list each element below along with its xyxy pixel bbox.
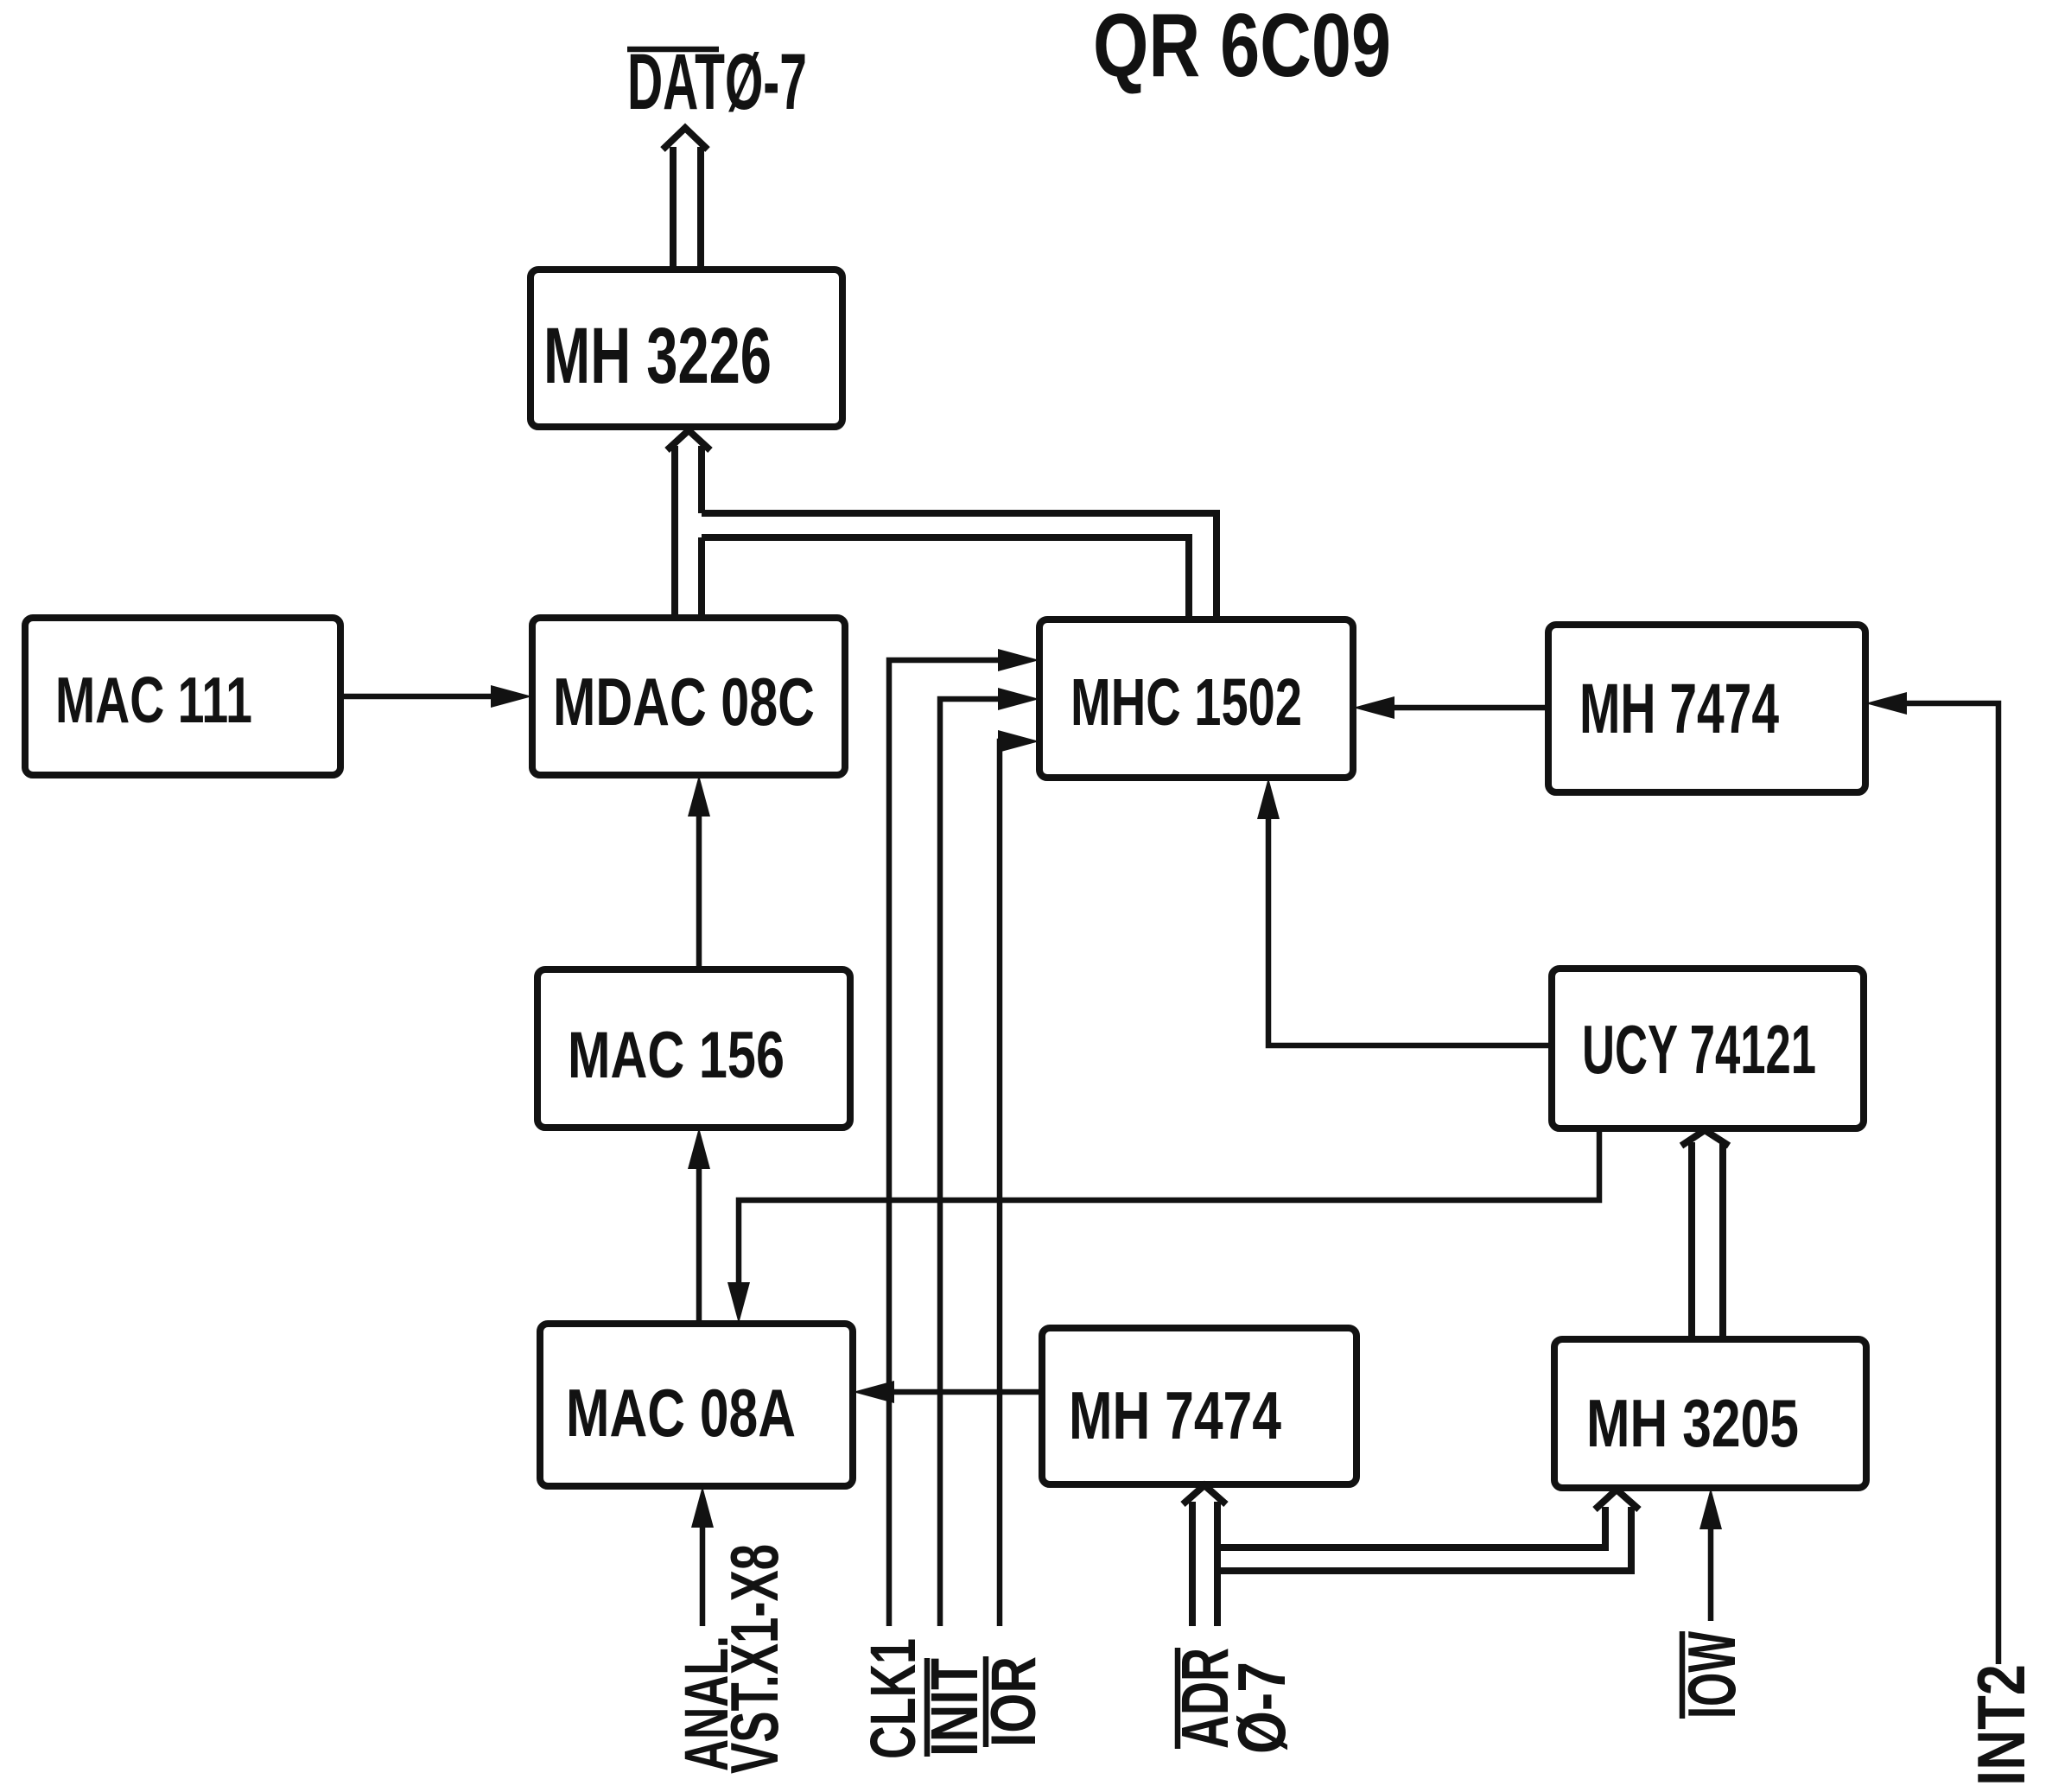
svg-text:MH 7474: MH 7474 (1069, 1377, 1281, 1453)
block MAC 08A (540, 1324, 853, 1486)
svg-text:MDAC 08C: MDAC 08C (553, 664, 815, 740)
wire MH7474 to MHC1502 (1353, 696, 1548, 719)
net label DAT0-7 (627, 38, 807, 126)
wire IOR to MHC1502 (998, 730, 1039, 1626)
bus arrow MH3226 to DAT0-7 (663, 128, 708, 269)
svg-text:IOR: IOR (979, 1656, 1049, 1747)
wire CLK1 to MHC1502 (889, 649, 1039, 1626)
svg-text:MH 3205: MH 3205 (1586, 1385, 1799, 1461)
svg-text:QR 6C09: QR 6C09 (1093, 0, 1391, 96)
wire UCY74121 to MHC1502 (1257, 778, 1551, 1045)
bus MHC1502 to MH3226 junction (702, 513, 1217, 620)
svg-text:INT2: INT2 (1963, 1664, 2039, 1786)
svg-text:MAC 08A: MAC 08A (566, 1375, 796, 1451)
wire MAC111 to MDAC08C (340, 685, 532, 708)
svg-text:Ø-7: Ø-7 (1223, 1662, 1299, 1754)
net label IOW (1674, 1631, 1750, 1719)
svg-text:MH 7474: MH 7474 (1579, 670, 1779, 748)
wire INT2 to MH7474 (1865, 692, 1998, 1664)
wire MAC156 to MDAC08C (688, 775, 710, 969)
wire ANAL input to MAC08A (691, 1486, 714, 1626)
svg-text:UCY 74121: UCY 74121 (1582, 1011, 1816, 1088)
net label IOR (979, 1656, 1049, 1747)
bus ADR branch to MH3205 (1217, 1490, 1639, 1571)
block MH 3205 (1554, 1339, 1866, 1488)
net label INIT (918, 1658, 992, 1757)
block MH 7474 (top) (1548, 625, 1865, 792)
block MAC 111 (25, 618, 340, 775)
wire MAC08A to MAC156 (688, 1128, 710, 1324)
block MAC 156 (537, 969, 850, 1128)
block MH 7474 (bottom) (1042, 1328, 1356, 1484)
net label ADR (1168, 1648, 1242, 1749)
bus arrow MDAC08C to MH3226 (667, 430, 710, 618)
block MDAC 08C (532, 618, 845, 775)
wire INIT to MHC1502 (940, 688, 1039, 1626)
svg-text:MAC 156: MAC 156 (568, 1019, 785, 1092)
svg-text:VST.X1-X8: VST.X1-X8 (716, 1544, 792, 1774)
wire UCY74121 to MAC08A (727, 1128, 1599, 1324)
block MH 3226 (530, 270, 842, 427)
wire MH7474 to MAC08A (853, 1381, 1042, 1403)
svg-text:MHC 1502: MHC 1502 (1070, 665, 1302, 740)
bus ADR to MH7474 (1183, 1485, 1226, 1626)
block UCY 74121 (1552, 969, 1864, 1128)
bus MH3205 to UCY74121 (1681, 1130, 1729, 1339)
wire IOW to MH3205 (1699, 1488, 1722, 1621)
block MHC 1502 (1039, 620, 1353, 778)
svg-text:MH 3226: MH 3226 (543, 312, 772, 400)
svg-text:MAC 111: MAC 111 (55, 664, 252, 736)
